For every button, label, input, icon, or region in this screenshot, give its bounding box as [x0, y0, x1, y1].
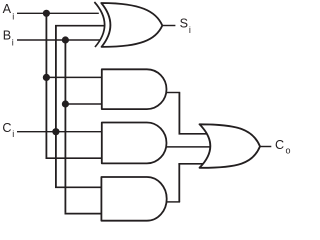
wire B_i input horizontal: [17, 39, 101, 41]
wire AND1-to-OR vertical: [178, 93, 180, 134]
node junction on B_i wire: [62, 36, 69, 43]
and gate 1 (A·B): [102, 69, 167, 109]
wire C rail elbow to XOR middle input: [55, 25, 105, 27]
wire XOR output to S_i: [162, 25, 175, 27]
node junction B rail to AND1: [62, 100, 69, 107]
wire C rail elbow to AND3 upper input: [55, 186, 103, 188]
wire C_i input horizontal to AND2 upper input: [17, 131, 103, 133]
svg-text:i: i: [189, 25, 191, 35]
svg-text:C: C: [275, 138, 284, 152]
svg-text:i: i: [12, 129, 14, 139]
and gate 2 (A·C): [102, 123, 167, 164]
svg-text:o: o: [286, 146, 291, 156]
wire AND1 output horizontal: [166, 92, 181, 94]
xor gate body (sum): [101, 3, 162, 47]
wire AND3-to-OR vertical: [178, 164, 180, 202]
wire C vertical rail: [55, 25, 57, 187]
wire B branch to AND1 lower input: [65, 103, 103, 105]
wire A_i input horizontal: [17, 12, 99, 14]
node junction A rail to AND1: [43, 74, 50, 81]
wire B rail elbow to AND3 lower input: [65, 213, 104, 215]
wire AND2 output to OR middle input: [166, 146, 212, 148]
wire AND1 elbow to OR top input: [179, 133, 209, 135]
wire A vertical rail: [45, 13, 47, 157]
svg-text:C: C: [2, 121, 11, 135]
svg-text:S: S: [180, 16, 188, 30]
svg-text:B: B: [3, 29, 11, 43]
and gate 3 (B·C): [101, 177, 166, 221]
wire AND3 elbow to OR bottom input: [178, 163, 208, 165]
svg-text:i: i: [12, 12, 14, 22]
wire AND3 output horizontal: [165, 201, 181, 203]
wire A branch to AND1 upper input: [46, 76, 103, 78]
svg-text:A: A: [3, 2, 12, 16]
wire A rail elbow to AND2 lower input: [46, 157, 104, 159]
or gate body (carry): [200, 124, 261, 168]
svg-text:i: i: [12, 38, 14, 48]
wire OR output to C_o: [259, 146, 271, 148]
node junction on A_i wire: [43, 10, 50, 17]
xor gate input arc: [94, 2, 104, 47]
wire B vertical rail: [64, 40, 66, 213]
node junction C_i to C rail: [52, 128, 59, 135]
